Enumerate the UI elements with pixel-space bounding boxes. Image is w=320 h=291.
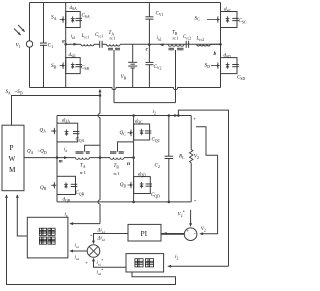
svg-text:+: + — [193, 116, 196, 122]
svg-text:m: m — [59, 160, 63, 165]
svg-text:ia1: ia1 — [75, 244, 80, 249]
svg-text:n:1: n:1 — [173, 36, 180, 41]
svg-text:M: M — [9, 166, 16, 174]
svg-text:Δia1: Δia1 — [97, 229, 106, 234]
svg-text:+: + — [85, 261, 88, 267]
svg-text:n:1: n:1 — [114, 171, 121, 176]
svg-text:b: b — [214, 51, 217, 57]
svg-text:+: + — [90, 233, 93, 239]
svg-text:a: a — [62, 38, 65, 44]
svg-text:-: - — [194, 231, 196, 237]
svg-text:n:1: n:1 — [80, 170, 87, 175]
svg-text:W: W — [9, 155, 16, 163]
svg-text:+: + — [186, 228, 189, 234]
svg-text:PI: PI — [141, 229, 148, 238]
svg-text:n: n — [127, 161, 130, 167]
svg-text:ia2: ia2 — [75, 256, 80, 261]
svg-text:P: P — [10, 144, 14, 152]
svg-text:Δia2: Δia2 — [97, 237, 106, 242]
svg-text:n:1: n:1 — [110, 36, 117, 41]
